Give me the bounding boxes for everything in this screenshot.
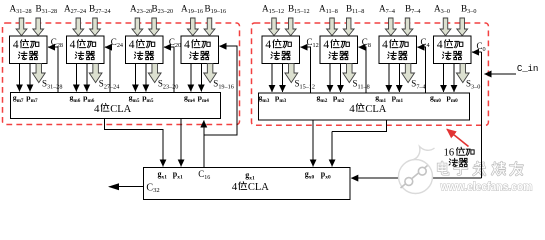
wire px1 from left CLA to bottom CLA xyxy=(180,119,182,167)
input block arrow A11–8 xyxy=(327,18,338,36)
sum output block arrow S3–0 xyxy=(456,64,469,83)
wire pm7 from U1 to CLA xyxy=(29,64,31,92)
input block arrow B19–16 xyxy=(204,18,215,36)
dashed group box left (bits 31-16) xyxy=(3,23,240,125)
bottom CLA block (inter-group 4-bit CLA) xyxy=(144,168,350,200)
sum output block arrow S31–28 xyxy=(32,64,45,83)
wire carry C8 from CLA up into U6 xyxy=(359,47,366,93)
input block arrow B27–24 xyxy=(90,18,101,36)
input block arrow B15–12 xyxy=(285,18,296,36)
svg-text:CLA: CLA xyxy=(365,104,386,115)
wire C16 branch to U4 carry input xyxy=(204,46,237,135)
adder U3 (4-bit adder, bits 23–20) xyxy=(125,36,162,64)
adder U6 (4-bit adder, bits 11–8) xyxy=(320,36,358,64)
sum output block arrow S23–20 xyxy=(148,64,161,83)
input block arrow B3–0 xyxy=(457,18,468,36)
svg-text:4: 4 xyxy=(129,39,135,51)
wire carry C24 from CLA up into U2 xyxy=(105,47,110,92)
sum output block arrow S7–4 xyxy=(402,64,415,83)
wire gm1 from U7 to CLA xyxy=(388,64,390,92)
input block arrow B31–28 xyxy=(33,18,44,36)
sum output block arrow S27–24 xyxy=(89,64,102,83)
CLA block left (4-bit CLA) xyxy=(11,93,221,119)
svg-text:16: 16 xyxy=(444,148,455,159)
input block arrow B23–20 xyxy=(149,18,160,36)
wire gm7 from U1 to CLA xyxy=(19,64,21,92)
wire C32 output xyxy=(110,186,144,188)
input block arrow A31–28 xyxy=(16,18,27,36)
svg-text:C_in: C_in xyxy=(517,63,539,74)
svg-text:CLA: CLA xyxy=(110,104,131,115)
wire pm1 from U7 to CLA xyxy=(398,64,400,92)
wire C_in into bottom CLA right side xyxy=(351,177,481,179)
svg-text:4: 4 xyxy=(382,39,388,51)
CLA block right (4-bit CLA) xyxy=(259,93,470,120)
input block arrow A3–0 xyxy=(440,18,451,36)
input block arrow A23–20 xyxy=(132,18,143,36)
wire carry C12 from CLA up into U5 xyxy=(301,47,311,93)
input block arrow B7–4 xyxy=(402,18,413,36)
input block arrow A27–24 xyxy=(73,18,84,36)
adder U1 (4-bit adder, bits 31–28) xyxy=(10,36,48,64)
sum output block arrow S11–8 xyxy=(343,64,356,83)
adder U5 (4-bit adder, bits 15–12) xyxy=(262,36,300,64)
wire gx1 from left CLA to bottom CLA xyxy=(104,119,163,167)
input block arrow A15–12 xyxy=(269,18,280,36)
svg-text:CLA: CLA xyxy=(248,182,269,193)
input block arrow A7–4 xyxy=(385,18,396,36)
svg-text:4: 4 xyxy=(13,39,19,51)
svg-text:4: 4 xyxy=(232,181,238,193)
svg-text:4: 4 xyxy=(437,39,443,51)
adder U8 (4-bit adder, bits 3–0) xyxy=(434,36,472,64)
sum output block arrow S15–12 xyxy=(285,64,298,83)
wire C16 from bottom CLA up into left CLA xyxy=(203,121,205,168)
adder U7 (4-bit adder, bits 7–4) xyxy=(379,36,417,64)
watermark brand text xyxy=(438,162,448,174)
wire gm5 from U3 to CLA xyxy=(134,64,136,92)
wire gm3 from U5 to CLA xyxy=(271,64,273,92)
wire gm2 from U6 to CLA xyxy=(329,64,331,92)
svg-text:4: 4 xyxy=(265,39,271,51)
svg-text:www.elecfans.com: www.elecfans.com xyxy=(440,180,533,194)
wire gm0 from U8 to CLA xyxy=(443,64,445,92)
wire C_in horizontal into group xyxy=(485,73,516,75)
wire pm2 from U6 to CLA xyxy=(340,64,342,92)
wire C0 into U8 xyxy=(472,51,481,53)
input block arrow B11–8 xyxy=(343,18,354,36)
svg-text:4: 4 xyxy=(70,39,76,51)
svg-text:4: 4 xyxy=(323,39,329,51)
wire pm0 from U8 to CLA xyxy=(453,64,455,92)
adder U2 (4-bit adder, bits 27–24) xyxy=(66,36,104,64)
adder U4 (4-bit adder, bits 19–16) xyxy=(181,36,219,64)
wire px0 from right CLA to bottom CLA xyxy=(332,120,387,166)
wire carry C28 from CLA up into U1 xyxy=(48,47,58,92)
wire carry C20 from CLA up into U3 xyxy=(164,47,174,92)
svg-text:4: 4 xyxy=(184,39,190,51)
wire gm4 from U4 to CLA xyxy=(190,64,192,92)
wire gm6 from U2 to CLA xyxy=(75,64,77,92)
wire carry C4 from CLA up into U7 xyxy=(418,47,426,93)
wire gx0 from right CLA to bottom CLA xyxy=(312,120,314,166)
dashed group box right (bits 15-0) xyxy=(252,23,489,125)
wire pm3 from U5 to CLA xyxy=(282,64,284,92)
svg-text:4: 4 xyxy=(349,103,355,115)
wire pm5 from U3 to CLA xyxy=(145,64,147,92)
wire C_in vertical bus xyxy=(480,52,482,178)
input block arrow A19–16 xyxy=(187,18,198,36)
svg-text:4: 4 xyxy=(94,103,100,115)
sum output block arrow S19–16 xyxy=(204,64,217,83)
wire pm6 from U2 to CLA xyxy=(86,64,88,92)
callout red arrow to group box xyxy=(447,129,469,146)
wire pm4 from U4 to CLA xyxy=(200,64,202,92)
watermark logo xyxy=(399,147,435,194)
